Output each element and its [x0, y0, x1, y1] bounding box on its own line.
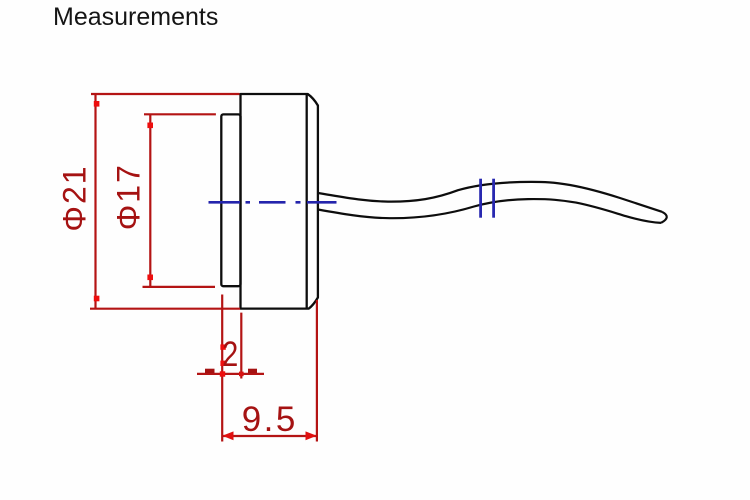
dimension 2: dimension line	[197, 373, 264, 375]
body: inner edge line of chamfer	[306, 95, 308, 309]
dimension Φ21: grip square bottom	[94, 296, 100, 302]
body: front rim rect (Φ17 face)	[221, 114, 240, 286]
dimension 2: left extension line	[221, 295, 223, 442]
dimension Φ17: grip square top	[147, 123, 153, 129]
centerline (blue dash-dot axis)	[209, 201, 337, 204]
dimension 9.5: left arrowhead	[222, 431, 233, 440]
dimension 9.5: right arrowhead	[306, 431, 317, 440]
dimension 2: left outside arrow tick	[205, 369, 215, 374]
svg-text:2: 2	[222, 335, 238, 374]
dimension Φ17: vertical dimension line	[149, 114, 151, 287]
cable: rounded end tip	[661, 212, 667, 223]
dimension Φ21: bottom extension line	[90, 308, 240, 310]
dimension Φ17: grip square bottom	[147, 275, 153, 281]
dimension Φ17: bottom extension line	[143, 286, 216, 288]
dimension Φ21: top extension line	[91, 93, 240, 95]
svg-text:Measurements: Measurements	[53, 3, 218, 31]
svg-text:9.5: 9.5	[242, 400, 298, 439]
cable break mark left (blue)	[479, 179, 482, 218]
svg-text:Φ17: Φ17	[111, 163, 147, 230]
dimension 2: grip on extension line upper	[220, 344, 225, 349]
cable break mark right (blue)	[492, 179, 495, 218]
dimension 2: right outside arrow tick	[248, 369, 257, 374]
dimension 2: grip on extension line lower	[220, 361, 225, 366]
dimension 2: grip at right crossing	[239, 372, 244, 377]
svg-text:Φ21: Φ21	[57, 164, 93, 231]
dimension Φ17: top extension line	[144, 113, 216, 115]
dimension Φ21: vertical dimension line	[94, 94, 96, 309]
dimension 2: grip at crossing	[220, 371, 225, 376]
cable: top outline	[318, 182, 662, 212]
dimension 9.5: right extension line	[316, 300, 318, 442]
dimension Φ21: grip square top	[94, 101, 100, 107]
body: main housing outline	[241, 94, 318, 309]
dimension 9.5: dimension line	[222, 435, 317, 437]
cable: bottom outline	[318, 199, 661, 223]
dimension 2: right extension line	[240, 313, 242, 379]
